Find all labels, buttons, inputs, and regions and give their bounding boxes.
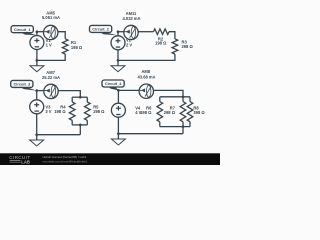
- label R2 value: [155, 36, 167, 45]
- svg-text:198 Ω: 198 Ω: [155, 41, 167, 46]
- wire: circuit 4 bottom rail: [118, 127, 183, 134]
- label AM5 value: [42, 10, 60, 20]
- label R5 value: [93, 104, 105, 114]
- node flag Circuit_2: [90, 25, 118, 35]
- svg-text:2 V: 2 V: [126, 42, 132, 47]
- svg-text:298 Ω: 298 Ω: [93, 109, 105, 114]
- ground circuit 2: [111, 60, 125, 71]
- svg-text:198 Ω: 198 Ω: [71, 45, 83, 50]
- node flag Circuit_1: [11, 26, 37, 36]
- label V1 value: [46, 38, 52, 48]
- ammeter AM11: [124, 25, 138, 39]
- label AM11 value: [123, 11, 141, 21]
- resistor R3: [172, 39, 178, 54]
- label R8 value: [193, 105, 205, 115]
- svg-text:298 Ω: 298 Ω: [164, 110, 176, 115]
- svg-text:R1: R1: [71, 40, 77, 45]
- svg-text:398 Ω: 398 Ω: [193, 110, 205, 115]
- node A1 junction: [36, 30, 39, 33]
- svg-text:198 Ω: 198 Ω: [54, 109, 66, 114]
- ammeter AM7: [44, 84, 58, 98]
- svg-text:Circuit_1: Circuit_1: [14, 27, 31, 32]
- node flag Circuit_4: [102, 80, 124, 90]
- wire: V2 leads: [117, 32, 119, 61]
- voltage source V2: [111, 36, 125, 50]
- label R6 value: [140, 105, 152, 115]
- junction V2 bottom: [117, 59, 120, 62]
- node A3 junction: [35, 89, 38, 92]
- ammeter AM8: [139, 84, 153, 98]
- footer CircuitLab logo: [9, 155, 30, 164]
- wire: V3 leads: [36, 91, 38, 135]
- junction V1 bottom: [36, 59, 39, 62]
- resistor R5: [85, 102, 91, 120]
- junction V3 bottom: [35, 133, 38, 136]
- label R7 value: [164, 106, 176, 116]
- svg-text:1 V: 1 V: [46, 43, 52, 48]
- svg-text:LAB: LAB: [21, 159, 30, 164]
- wire: circuit 3 bottom rail: [37, 125, 81, 135]
- junction V4 bottom: [117, 132, 120, 135]
- resistor R1: [62, 39, 68, 54]
- svg-text:Circuit_4: Circuit_4: [105, 81, 122, 86]
- wire: circuit 2 bottom rail: [118, 54, 175, 60]
- wire: circuit 1 bottom rail: [37, 54, 65, 60]
- wire: circuit 3 parallel bars: [72, 97, 87, 125]
- wire: circuit 2 top rail: [118, 32, 175, 39]
- resistor R6: [157, 102, 163, 122]
- label AM7 value: [42, 70, 60, 80]
- resistor R8: [187, 102, 193, 122]
- junction parallel bottom c3: [79, 124, 82, 127]
- label R4 value: [54, 104, 66, 114]
- wire: circuit 1 top rail: [37, 32, 65, 39]
- svg-text:5.051 mA: 5.051 mA: [42, 15, 60, 20]
- junction parallel bottom c4: [182, 125, 185, 128]
- node flag Circuit_3: [11, 80, 37, 90]
- junction parallel top c4: [182, 95, 185, 98]
- svg-text:3 V: 3 V: [45, 109, 51, 114]
- voltage source V3: [30, 100, 44, 114]
- ammeter AM5: [44, 25, 58, 39]
- node A4 junction: [117, 89, 120, 92]
- resistor R4: [69, 102, 75, 120]
- label V4 value: [135, 105, 141, 115]
- ground circuit 3: [30, 135, 44, 146]
- footer attribution text: [43, 155, 88, 163]
- svg-text:198 Ω: 198 Ω: [140, 110, 152, 115]
- resistor R7: [180, 102, 186, 122]
- label R1 value: [71, 40, 83, 50]
- label V2 value: [126, 37, 132, 47]
- label R3 value: [182, 40, 194, 49]
- svg-text:43.68 mA: 43.68 mA: [138, 74, 156, 79]
- wire: V1 leads: [36, 32, 38, 61]
- ground circuit 4: [111, 134, 125, 145]
- wire: circuit 3 top rail: [37, 91, 81, 98]
- svg-text:4.032 mA: 4.032 mA: [123, 16, 141, 21]
- wire: circuit 4 top rail: [118, 90, 183, 96]
- wire: circuit 4 parallel bars: [160, 97, 190, 127]
- voltage source V1: [30, 36, 44, 50]
- svg-text:25.22 mA: 25.22 mA: [42, 75, 60, 80]
- voltage source V4: [111, 103, 125, 117]
- node A2 junction: [117, 30, 120, 33]
- label AM8 value: [138, 69, 156, 79]
- label V3 value: [45, 104, 51, 114]
- svg-text:Circuit_2: Circuit_2: [92, 27, 109, 32]
- ground circuit 1: [30, 60, 44, 71]
- junction parallel top c3: [79, 96, 82, 99]
- svg-text:Circuit_3: Circuit_3: [13, 82, 30, 87]
- svg-text:298 Ω: 298 Ω: [182, 44, 194, 49]
- resistor R2: [154, 29, 170, 35]
- footer bar: [0, 153, 220, 165]
- svg-text:circuitlab.com/c/xyfu99ukq6b/l: circuitlab.com/c/xyfu99ukq6b/lab1: [43, 159, 88, 163]
- wire: V4 leads: [117, 90, 119, 133]
